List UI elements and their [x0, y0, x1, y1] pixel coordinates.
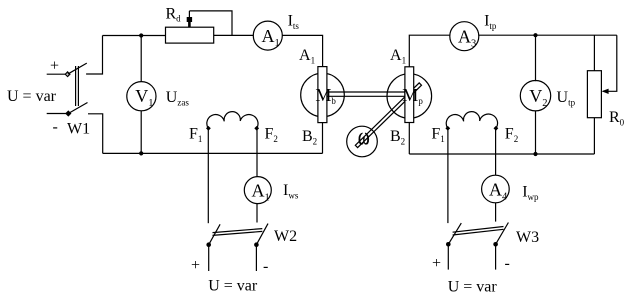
tachometer circle [347, 126, 378, 157]
node F1 right [445, 126, 450, 131]
voltmeter V1 [127, 82, 156, 111]
resistor R0 body [587, 71, 601, 118]
switch W2 crossbar [213, 231, 263, 235]
wire A4 to W3 [495, 203, 497, 222]
svg-text:-: - [53, 119, 58, 136]
svg-text:W3: W3 [516, 229, 539, 246]
resistor Rd wiper arrow [188, 11, 190, 18]
wire A1 to Mb top [282, 35, 322, 66]
inductor field winding right [446, 112, 497, 129]
wire bottom bus right circuit [409, 153, 594, 155]
switch W1 bottom stub [47, 113, 69, 115]
node V2 bottom junction [533, 152, 537, 156]
wire Rd output to A1 [214, 34, 254, 36]
wire Mb bottom to bus [322, 123, 324, 154]
resistor R0 wiper arrowhead [602, 89, 609, 94]
svg-text:W2: W2 [274, 228, 297, 245]
svg-text:-: - [505, 255, 510, 272]
wire bottom bus left circuit [103, 152, 323, 154]
svg-text:+: + [50, 58, 59, 75]
wire F2 right down to A4 [495, 128, 497, 175]
switch W1 top pivot [65, 72, 70, 77]
svg-text:ω: ω [358, 125, 370, 151]
switch W3 right pivot [493, 242, 498, 247]
wire Mp top to A3 [408, 123, 410, 154]
switch W3 left blade [448, 223, 461, 244]
wire F1 right down [447, 128, 449, 223]
svg-text:+: + [191, 257, 200, 274]
switch W1 bottom pivot [66, 111, 71, 116]
wire F2 left down to Aws [256, 128, 258, 176]
switch W2 right blade [256, 224, 268, 245]
svg-text:U = var: U = var [448, 279, 498, 296]
switch W2 left blade [209, 224, 220, 244]
switch W2 left pivot [206, 242, 211, 247]
wire V2 bottom branch [535, 111, 537, 155]
ammeter A3 [450, 22, 479, 51]
switch W1 linkage bar [75, 66, 77, 106]
shaft to tachometer [355, 83, 421, 148]
switch W3 right blade [496, 223, 509, 245]
node V2 top junction [533, 33, 537, 37]
wire R0 top [593, 35, 595, 70]
inductor field winding left [207, 112, 258, 129]
switch W1 top stub [47, 73, 68, 75]
svg-text:W1: W1 [67, 121, 90, 138]
motor Mb circle [301, 73, 345, 117]
node F2 left [254, 126, 259, 131]
wire A3 to top right corner [479, 34, 617, 36]
svg-text:U = var: U = var [7, 88, 57, 105]
wire V1 top branch [140, 36, 142, 82]
svg-text:+: + [432, 255, 441, 272]
resistor Rd body [166, 27, 214, 43]
wire W2 left lead [208, 245, 210, 271]
switch W3 crossbar [453, 229, 504, 235]
generator Mp brush bar [405, 67, 414, 123]
wire left vertical down to W1 top contact [86, 36, 102, 75]
wire V1 bottom branch [140, 111, 142, 154]
switch W2 right pivot [254, 242, 259, 247]
wire top-left horizontal to Rd [103, 35, 166, 37]
shaft coupling Mb-Mp [327, 91, 405, 93]
node F2 right [494, 126, 499, 131]
wire R0 bottom [593, 118, 595, 154]
ammeter A4 [482, 175, 510, 203]
wire F1 left down [207, 128, 209, 223]
wire R0 wiper feed [603, 35, 617, 91]
switch W3 left pivot [446, 242, 451, 247]
wire W2 right lead [255, 245, 257, 271]
wire W1 bottom contact to bus [88, 114, 103, 154]
svg-text:-: - [263, 258, 268, 275]
wire Mp top up [409, 35, 450, 67]
motor Mb brush bar [318, 67, 327, 123]
node F1 left [206, 126, 211, 131]
wire W3 left lead [447, 244, 449, 269]
wire Aws to W2 [256, 204, 258, 223]
ammeter Aws [244, 177, 271, 204]
wire W3 right lead [495, 244, 497, 269]
wire V2 top branch [535, 35, 537, 81]
voltmeter V2 [520, 81, 550, 111]
generator Mp circle [387, 74, 432, 119]
switch W1 top blade [68, 63, 87, 74]
wire Rd wiper loop [189, 11, 232, 36]
node V1 top junction [139, 33, 143, 37]
switch W1 bottom blade [68, 103, 87, 114]
ammeter A1 [253, 21, 282, 50]
svg-text:U = var: U = var [208, 277, 258, 294]
node V1 bottom junction [139, 151, 143, 155]
